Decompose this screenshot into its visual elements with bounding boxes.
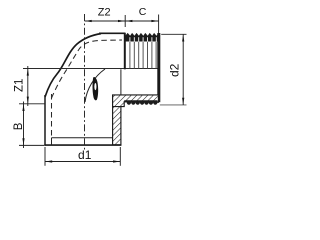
- svg-text:Z2: Z2: [98, 7, 111, 19]
- top body line: [99, 32, 126, 34]
- svg-text:d1: d1: [78, 148, 92, 162]
- inner corner arc (bore opening edge): [85, 69, 105, 102]
- outlet centerline (horizontal axis): [23, 68, 159, 70]
- section: socket right wall (vertical hatched bar): [113, 95, 121, 145]
- socket outer edge in cutaway: [120, 69, 122, 95]
- svg-text:Z1: Z1: [13, 79, 25, 92]
- socket centerline (vertical axis): [84, 14, 86, 150]
- socket left outer edge: [44, 95, 46, 146]
- d1 dimension: [44, 147, 46, 166]
- thread flank lines: [130, 42, 156, 69]
- C dimension: [125, 20, 158, 22]
- dimension lines group: [19, 15, 187, 166]
- d2 dimension: [161, 33, 186, 35]
- corner shadow (teardrop): [93, 77, 99, 100]
- pipe end face: [157, 33, 160, 102]
- B dimension: [19, 144, 44, 146]
- svg-text:B: B: [13, 122, 25, 130]
- white thread slots: [130, 37, 156, 41]
- socket bottom outer face: [44, 144, 121, 146]
- socket bottom inner line: [52, 137, 113, 139]
- Z2 dimension: [124, 15, 126, 27]
- socket inner wall edge at bottom: [51, 138, 53, 145]
- outer arc of elbow body: [45, 34, 101, 97]
- Z1 dimension: [19, 103, 45, 105]
- section: outlet bottom wall (horizontal hatched bar): [113, 95, 159, 107]
- svg-text:C: C: [139, 6, 147, 18]
- hidden bore arc (dashed): [52, 40, 123, 98]
- thread crest zigzag band: [125, 33, 158, 42]
- hidden socket bore line (dashed): [51, 94, 53, 138]
- thread shoulder line: [124, 33, 126, 69]
- svg-text:d2: d2: [167, 63, 181, 77]
- lower thread profile (scallop teeth): [124, 100, 157, 105]
